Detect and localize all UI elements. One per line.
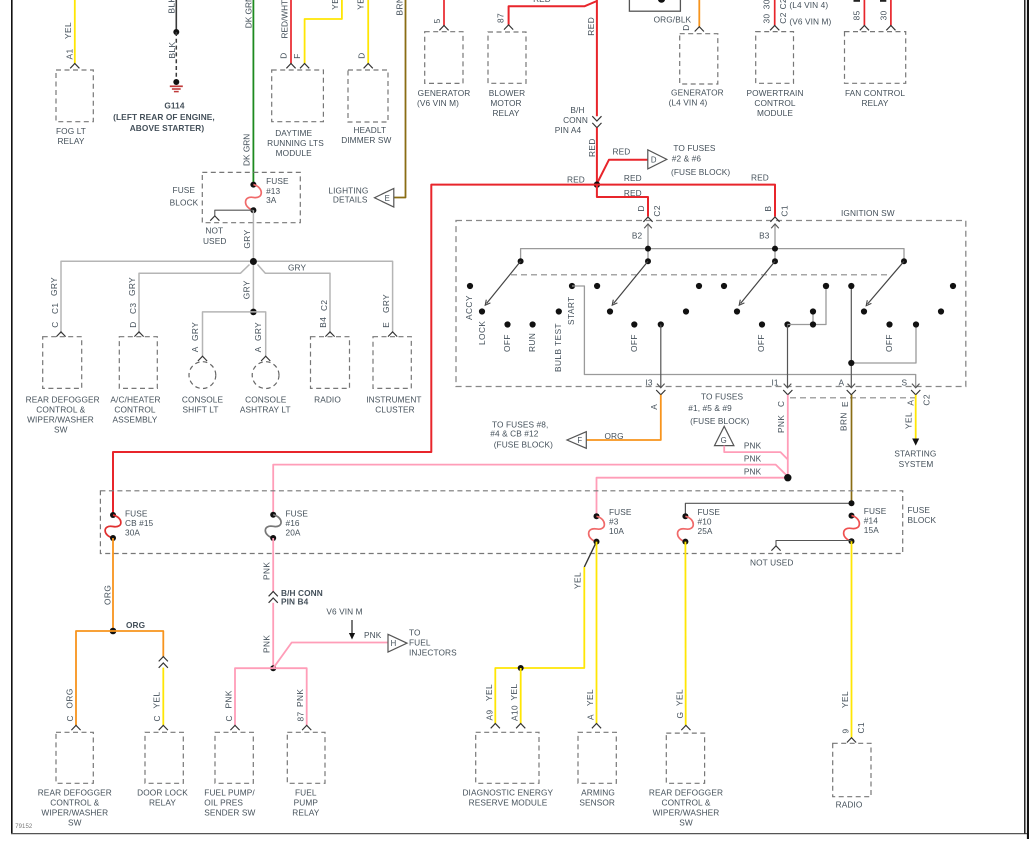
wire not used stub lower (776, 541, 852, 546)
connector fog lt relay (70, 64, 79, 69)
svg-text:YEL: YEL (674, 689, 684, 706)
connector a/c heater (134, 332, 143, 337)
svg-text:HEADLT: HEADLT (353, 125, 386, 135)
svg-text:A: A (253, 346, 263, 352)
wire YEL to diagnostic module (495, 567, 584, 724)
svg-text:PIN B4: PIN B4 (281, 596, 309, 606)
wire GRY console bus (203, 312, 266, 356)
wire RED/WHT (290, 0, 292, 64)
svg-text:PNK: PNK (262, 635, 272, 653)
svg-text:ORG: ORG (605, 431, 624, 441)
connector D generator l4 (695, 27, 704, 32)
fog lt relay box (56, 70, 93, 122)
svg-text:TO FUSES: TO FUSES (701, 391, 744, 401)
node YEL junction (518, 665, 524, 671)
connector not used lower (771, 546, 780, 551)
fuse F3 10A (594, 513, 600, 519)
svg-text:20A: 20A (286, 528, 301, 538)
svg-text:30: 30 (879, 10, 889, 20)
svg-text:CONN: CONN (563, 115, 588, 125)
svg-text:GRY: GRY (49, 277, 59, 296)
svg-text:(FUSE BLOCK): (FUSE BLOCK) (671, 167, 730, 177)
headlt dimmer sw box (348, 70, 388, 122)
wire YEL diag from fuse 3 (584, 542, 596, 567)
svg-text:30A: 30A (125, 528, 140, 538)
junction block (cut off) (629, 0, 680, 11)
svg-text:B: B (763, 206, 773, 212)
svg-text:A: A (905, 400, 915, 406)
svg-text:NOT: NOT (205, 226, 223, 236)
wire PNK I1 down (787, 395, 789, 478)
svg-text:YEL: YEL (152, 691, 162, 708)
svg-text:OFF: OFF (629, 334, 639, 352)
svg-text:RED: RED (624, 173, 642, 183)
radio box (311, 337, 350, 389)
wire RED bus left down to fuse block (113, 185, 597, 515)
svg-text:POWERTRAIN: POWERTRAIN (746, 88, 803, 98)
fuse block box lower (100, 491, 902, 554)
rear defogger control box bottom (56, 732, 93, 783)
svg-text:SW: SW (679, 818, 693, 828)
wire not used stub (215, 210, 254, 216)
svg-text:15A: 15A (864, 525, 879, 535)
svg-text:GENERATOR: GENERATOR (671, 88, 724, 98)
svg-text:RADIO: RADIO (836, 800, 863, 810)
svg-text:C1: C1 (780, 205, 790, 217)
svg-text:C: C (65, 715, 75, 721)
svg-text:ACCY: ACCY (464, 295, 474, 320)
svg-text:PNK: PNK (295, 689, 305, 707)
svg-text:NOT USED: NOT USED (750, 558, 794, 568)
wire ORG from CB15 (112, 538, 114, 631)
a/c heater control assembly box (119, 337, 157, 389)
svg-text:30: 30 (762, 0, 772, 9)
daytime running lts module box (272, 70, 324, 122)
wire PNK below b/h conn (272, 603, 274, 668)
fan control relay box (845, 32, 906, 84)
lighting details arrow E (375, 188, 394, 207)
svg-text:C3: C3 (128, 302, 138, 314)
wire YEL to fog lt relay (74, 0, 76, 64)
svg-text:C2: C2 (778, 0, 788, 9)
svg-text:ORG: ORG (126, 620, 145, 630)
connector radio C1 (847, 738, 856, 743)
svg-text:MODULE: MODULE (276, 148, 312, 158)
connector console shift lt (198, 356, 207, 361)
svg-text:YEL: YEL (356, 0, 366, 10)
ignition contacts row C (504, 321, 510, 327)
svg-text:WIPER/WASHER: WIPER/WASHER (27, 415, 94, 425)
node console junction (250, 309, 257, 316)
connector A brn (847, 390, 856, 395)
svg-text:85: 85 (851, 10, 861, 20)
instrument cluster box (373, 337, 411, 389)
svg-text:I3: I3 (646, 378, 653, 388)
svg-text:YEL: YEL (509, 683, 519, 700)
connector radio B4 (325, 332, 334, 337)
wire YEL to pin F (305, 0, 342, 64)
node brn junction (849, 500, 855, 506)
svg-text:SENSOR: SENSOR (579, 798, 615, 808)
arrow D to fuses #2 #6 (648, 150, 667, 169)
svg-text:YEL: YEL (573, 572, 583, 589)
wire RED below b/h conn (596, 128, 598, 185)
svg-text:RELAY: RELAY (492, 108, 519, 118)
svg-text:5: 5 (432, 18, 442, 23)
wire PNK from G (724, 446, 788, 460)
svg-text:YEL: YEL (63, 22, 73, 39)
svg-text:FUEL PUMP/: FUEL PUMP/ (204, 788, 255, 798)
console shift lt lamp (189, 362, 216, 389)
svg-text:REAR DEFOGGER: REAR DEFOGGER (38, 788, 112, 798)
wire RED blower relay (509, 1, 597, 25)
connector instrument cluster (388, 332, 397, 337)
svg-text:(FUSE BLOCK): (FUSE BLOCK) (690, 416, 749, 426)
svg-text:OFF: OFF (756, 334, 766, 352)
svg-text:FUSE: FUSE (266, 176, 289, 186)
svg-text:CONTROL &: CONTROL & (662, 798, 711, 808)
powertrain control module box (756, 32, 794, 84)
svg-text:RUNNING LTS: RUNNING LTS (267, 138, 324, 148)
connector A9 (491, 724, 500, 729)
svg-text:DOOR LOCK: DOOR LOCK (137, 788, 188, 798)
connector rear defogger right (681, 725, 690, 730)
fuel pump relay box (287, 732, 325, 783)
svg-text:RED: RED (751, 173, 769, 183)
wire YEL A10 drop (520, 668, 522, 724)
svg-text:#3: #3 (609, 517, 619, 527)
svg-text:REAR DEFOGGER: REAR DEFOGGER (26, 395, 100, 405)
wire S output arrow (912, 384, 920, 388)
svg-text:ORG: ORG (65, 688, 75, 708)
svg-text:I1: I1 (772, 378, 779, 388)
wire BRN (394, 0, 406, 198)
svg-text:INJECTORS: INJECTORS (409, 648, 457, 658)
svg-text:A1: A1 (65, 48, 75, 59)
svg-text:SW: SW (54, 425, 68, 435)
svg-text:(L4 VIN 4): (L4 VIN 4) (669, 98, 708, 108)
connector door lock relay (159, 725, 168, 730)
wire B3 drop (774, 224, 776, 262)
wire YEL from fuse 14 to radio (851, 541, 853, 738)
svg-text:C: C (776, 401, 786, 407)
connector B/H CONN PIN A4 (592, 116, 601, 121)
switch wiper off-run column2 (614, 261, 649, 303)
svg-text:IGNITION SW: IGNITION SW (841, 208, 895, 218)
svg-text:#2 & #6: #2 & #6 (672, 154, 702, 164)
svg-text:CLUSTER: CLUSTER (375, 405, 414, 415)
connector 30 fan relay (886, 26, 895, 31)
wire PNK to fuel pump relay (273, 668, 307, 725)
connector generator v6 (439, 26, 448, 31)
svg-text:ASSEMBLY: ASSEMBLY (113, 415, 158, 425)
connector D headlt dimmer (364, 64, 373, 69)
connector door lock splice (159, 657, 168, 662)
svg-text:PNK: PNK (744, 440, 762, 450)
svg-text:H: H (391, 639, 397, 648)
svg-text:87: 87 (496, 13, 506, 23)
wire ORG to rear defogger (76, 631, 113, 725)
arming sensor box (578, 732, 616, 783)
svg-text:FAN CONTROL: FAN CONTROL (845, 88, 905, 98)
wire GRY bus lower right (258, 265, 331, 334)
svg-text:WIPER/WASHER: WIPER/WASHER (653, 808, 720, 818)
wire BRN down to fuse block (851, 395, 853, 504)
svg-text:BLK: BLK (167, 41, 177, 58)
wire PNK to fuel injectors (273, 643, 388, 669)
svg-text:D: D (651, 155, 657, 164)
svg-text:30: 30 (762, 13, 772, 23)
wire RED generator v6 (443, 0, 445, 26)
page border right outer (1027, 0, 1029, 839)
svg-text:#16: #16 (286, 518, 300, 528)
svg-text:C2: C2 (652, 205, 662, 217)
svg-text:E: E (385, 194, 390, 203)
fuse F10 25A (682, 513, 688, 519)
svg-text:SHIFT LT: SHIFT LT (183, 405, 219, 415)
wire GRY bus upper (61, 261, 393, 333)
svg-text:A: A (190, 346, 200, 352)
node splice (173, 29, 179, 35)
svg-text:87: 87 (296, 711, 306, 721)
svg-text:BULB TEST: BULB TEST (553, 323, 563, 372)
svg-text:(V6 VIN M): (V6 VIN M) (417, 98, 459, 108)
connector B/H CONN PIN B4 (269, 592, 278, 597)
svg-text:YEL: YEL (585, 689, 595, 706)
svg-text:MODULE: MODULE (757, 108, 793, 118)
generator (V6 VIN M) box (425, 32, 463, 84)
svg-text:79152: 79152 (15, 824, 33, 830)
svg-text:DAYTIME: DAYTIME (275, 128, 312, 138)
wire ORG to F arrow (586, 395, 661, 440)
connector rear defogger sw (56, 332, 65, 337)
wire DK GRN (252, 0, 254, 185)
svg-text:D: D (357, 52, 367, 58)
svg-text:C2: C2 (778, 12, 788, 24)
connector S yel (911, 390, 920, 395)
svg-text:RELAY: RELAY (57, 136, 84, 146)
svg-text:BLOWER: BLOWER (489, 88, 526, 98)
svg-text:DK GRN: DK GRN (242, 134, 252, 166)
connector F daytime module (300, 64, 309, 69)
svg-text:INSTRUMENT: INSTRUMENT (366, 395, 421, 405)
connector arming sensor (592, 724, 601, 729)
svg-text:BRN: BRN (838, 412, 848, 431)
svg-text:RED: RED (567, 175, 585, 185)
blower motor relay box (488, 32, 526, 83)
svg-text:E: E (840, 401, 850, 407)
wire BLK solid (175, 0, 177, 32)
svg-text:FUSE: FUSE (698, 507, 721, 517)
wire BLK dashed (175, 32, 177, 82)
svg-text:RED/WHT: RED/WHT (280, 0, 290, 39)
wire YEL from fuse 10 (684, 542, 686, 726)
connector 87 blower relay (504, 25, 513, 30)
svg-text:C: C (224, 715, 234, 721)
svg-text:A10: A10 (510, 705, 520, 721)
wire RED fan 85 (863, 0, 865, 26)
svg-text:FOG LT: FOG LT (56, 126, 86, 136)
wire YEL to arming sensor (596, 542, 598, 724)
svg-text:FUSE: FUSE (173, 185, 196, 195)
svg-text:ORG: ORG (103, 585, 113, 605)
connector A10 (516, 724, 525, 729)
svg-text:PNK: PNK (262, 562, 272, 580)
arrow F to fuses #8 (567, 432, 586, 449)
svg-text:S: S (902, 377, 908, 387)
node ORG junction (110, 628, 117, 635)
svg-text:OFF: OFF (884, 334, 894, 352)
svg-text:CONTROL &: CONTROL & (36, 405, 85, 415)
svg-text:CB #15: CB #15 (125, 518, 154, 528)
svg-text:YEL: YEL (903, 412, 913, 429)
svg-text:GRY: GRY (381, 294, 391, 313)
page border left (11, 0, 13, 834)
svg-text:YEL: YEL (330, 0, 340, 10)
svg-text:GRY: GRY (242, 229, 252, 248)
connector powertrain (770, 26, 779, 31)
svg-text:(L4 VIN 4): (L4 VIN 4) (789, 0, 828, 10)
svg-text:CONTROL &: CONTROL & (50, 798, 99, 808)
diagnostic energy reserve module box (476, 732, 539, 783)
svg-text:A9: A9 (484, 709, 494, 720)
wire RED to fuses arrow D (598, 160, 648, 183)
svg-text:(LEFT REAR OF ENGINE,: (LEFT REAR OF ENGINE, (113, 112, 215, 122)
fuse F14 15A (849, 513, 855, 519)
connector I3 (656, 390, 665, 395)
svg-text:GENERATOR: GENERATOR (418, 88, 471, 98)
svg-text:C: C (152, 715, 162, 721)
wire ignition jumper (788, 286, 827, 325)
connector rear defogger bottom (71, 725, 80, 730)
svg-text:G114: G114 (164, 101, 185, 111)
wire GRY from fuse 13 (252, 210, 254, 261)
svg-text:RELAY: RELAY (861, 98, 888, 108)
svg-text:RED: RED (587, 138, 597, 157)
ignition inner dashed line (511, 274, 890, 276)
svg-text:RED: RED (612, 147, 630, 157)
svg-text:FUSE: FUSE (609, 507, 632, 517)
svg-text:RED: RED (533, 0, 551, 4)
svg-text:TO FUSES: TO FUSES (673, 143, 716, 153)
svg-text:#1, #5 & #9: #1, #5 & #9 (688, 403, 732, 413)
radio box bottom (833, 743, 871, 796)
svg-text:YEL: YEL (840, 691, 850, 708)
svg-text:D: D (681, 24, 691, 30)
svg-text:10A: 10A (609, 526, 624, 536)
node PNK junction (784, 474, 791, 481)
wire RED bus right to C1 (597, 185, 775, 217)
wire START to S output (572, 286, 916, 388)
wire PNK to fuel pump sender (235, 668, 273, 725)
connector B C1 ignition (770, 217, 779, 222)
svg-text:A: A (586, 714, 596, 720)
node PNK bottom junction (270, 665, 276, 671)
svg-text:CONSOLE: CONSOLE (245, 395, 287, 405)
svg-text:SENDER SW: SENDER SW (204, 808, 255, 818)
svg-text:RED: RED (586, 17, 596, 36)
svg-text:RELAY: RELAY (149, 798, 176, 808)
wire ORG to door lock splice (113, 631, 163, 657)
fuel pump/oil pres sender box (215, 732, 253, 783)
svg-text:B3: B3 (759, 230, 770, 240)
svg-text:RED: RED (624, 188, 642, 198)
wire ignition top bus (521, 249, 904, 262)
svg-text:FUEL: FUEL (409, 638, 431, 648)
svg-text:D: D (279, 52, 289, 58)
svg-text:FUEL: FUEL (295, 788, 317, 798)
wire B2 drop (647, 224, 649, 262)
wire YEL to headlt dimmer (367, 0, 369, 64)
svg-text:F: F (577, 436, 582, 445)
svg-text:SYSTEM: SYSTEM (899, 459, 934, 469)
connector not used (210, 216, 219, 221)
svg-text:DIMMER SW: DIMMER SW (341, 135, 391, 145)
svg-text:BLOCK: BLOCK (170, 198, 199, 208)
connector console ashtray lt (261, 356, 270, 361)
svg-text:C1: C1 (856, 722, 866, 734)
ignition contacts row B (479, 308, 485, 314)
node RED junction (594, 181, 600, 187)
svg-text:PIN A4: PIN A4 (555, 125, 582, 135)
node fuse 13 bottom (250, 207, 256, 213)
connector D daytime module (286, 64, 295, 69)
wire GRY center down (252, 261, 254, 312)
wire A branch to contact (851, 325, 916, 364)
connector I1 (783, 390, 792, 395)
wire YEL to door lock relay (162, 668, 164, 726)
fuse CB15 30A (110, 512, 116, 518)
svg-text:TO: TO (409, 628, 421, 638)
svg-text:C2: C2 (922, 394, 932, 406)
wire RED fan 30 (890, 0, 892, 26)
svg-text:RESERVE MODULE: RESERVE MODULE (469, 798, 548, 808)
svg-text:FUSE: FUSE (864, 506, 887, 516)
svg-text:(V6 VIN M): (V6 VIN M) (789, 17, 831, 27)
generator (L4 VIN 4) box (680, 34, 718, 84)
svg-text:25A: 25A (698, 526, 713, 536)
page border bottom (11, 833, 1028, 835)
svg-text:FUSE: FUSE (125, 509, 148, 519)
rear defogger control box (43, 337, 82, 389)
svg-text:GRY: GRY (288, 262, 306, 272)
svg-text:B4: B4 (318, 317, 328, 328)
svg-text:#4 & CB #12: #4 & CB #12 (490, 429, 538, 439)
node ground junction (173, 79, 179, 85)
wire ORG/BLK to generator l4 (698, 0, 700, 27)
svg-text:G: G (721, 436, 727, 445)
svg-text:REAR DEFOGGER: REAR DEFOGGER (649, 788, 723, 798)
wire I3 output (658, 321, 664, 327)
ground G114 (170, 85, 183, 87)
node fuse 13 top (250, 182, 256, 188)
svg-text:PNK: PNK (364, 630, 382, 640)
wire GRY bus lower left (139, 265, 250, 334)
wire YEL to starting system (915, 395, 917, 441)
svg-text:#14: #14 (864, 516, 878, 526)
connector D C2 ignition (643, 217, 652, 222)
wire I1 output (784, 321, 790, 327)
svg-text:#10: #10 (698, 517, 712, 527)
wire RED lower to C2 (597, 185, 648, 217)
svg-text:D: D (636, 205, 646, 211)
svg-text:RUN: RUN (527, 333, 537, 352)
node GRY junction (250, 258, 257, 265)
svg-text:USED: USED (203, 236, 226, 246)
svg-text:GRY: GRY (242, 280, 252, 299)
fuse block box upper (202, 172, 300, 222)
svg-text:A: A (839, 378, 845, 388)
